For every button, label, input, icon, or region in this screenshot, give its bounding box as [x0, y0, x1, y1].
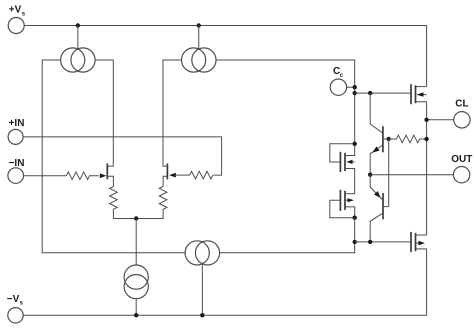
wire R2 to J2 gate [176, 174, 190, 176]
node CL [424, 118, 428, 122]
MOSFET M4 [330, 190, 355, 218]
svg-text:−V: −V [7, 294, 20, 305]
JFET J1 [106, 163, 108, 179]
current source I1 [61, 48, 96, 72]
JFET J2 [166, 163, 168, 179]
node top rail / I1 [76, 23, 80, 27]
wire -IN to R1 [24, 175, 67, 177]
node OUT [368, 173, 372, 177]
wire top rail [24, 26, 426, 87]
wire OUT [370, 174, 453, 176]
wire M2 gate [355, 241, 411, 243]
svg-text:OUT: OUT [451, 154, 472, 165]
current source I2 [182, 48, 216, 72]
terminal -IN [8, 168, 24, 184]
resistor R5 [389, 135, 426, 143]
MOSFET M3 [330, 144, 355, 194]
wire I4 right output [220, 242, 355, 253]
wire Cc to chain [347, 86, 355, 88]
current source I3 [124, 265, 148, 299]
transistor Q2 [370, 175, 389, 242]
J2 source lead [163, 176, 167, 186]
node M2 gate left [353, 240, 357, 244]
svg-text:+V: +V [9, 5, 22, 16]
terminal Cc [330, 79, 346, 95]
wire bottom rail [23, 249, 426, 315]
node Q1 collector branch [368, 91, 372, 95]
svg-text:+IN: +IN [9, 118, 25, 129]
node Q1 base [387, 137, 391, 141]
resistor R4 [136, 187, 167, 219]
resistor R3 [110, 187, 137, 219]
wire M4 to gate node [354, 218, 356, 242]
current source I4 [185, 241, 220, 265]
node M3 drain [353, 142, 357, 146]
wire I2 right output to bias chain [216, 60, 355, 144]
wire tail to I3 [135, 219, 137, 266]
MOSFET M2 [411, 232, 427, 252]
node top rail / I2 [197, 23, 201, 27]
node R5 right [424, 137, 428, 141]
J1 gate arrow [100, 173, 107, 178]
transistor Q1 [370, 93, 389, 175]
node tail [134, 216, 138, 220]
node M1 gate [353, 91, 357, 95]
wire I1 left output [42, 60, 185, 253]
MOSFET M1 [411, 84, 427, 235]
wire CL [427, 119, 454, 121]
wire I1 top feed [77, 26, 79, 51]
wire M1 gate [355, 92, 411, 94]
wire I4 to rail [201, 263, 203, 316]
terminal CL [454, 112, 470, 128]
node Cc [353, 85, 357, 89]
node Q2 collector / M2 gate [368, 240, 372, 244]
wire I2 top feed [198, 26, 200, 51]
node M4 source [353, 216, 357, 220]
J1 source lead [107, 176, 113, 186]
terminal -Vs [8, 308, 23, 323]
J2 gate arrow [169, 173, 176, 178]
wire Q1 Q2 bases [388, 139, 390, 207]
node rail / I4 [200, 313, 204, 317]
resistor R2 [190, 171, 213, 179]
resistor R1 [66, 172, 99, 180]
wire +IN to J2 gate loop [23, 137, 222, 175]
terminal +IN [8, 129, 23, 144]
terminal OUT [453, 167, 469, 183]
wire I1 right output to J1 drain [95, 60, 113, 166]
node rail / I3 [134, 313, 138, 317]
terminal +Vs [8, 18, 24, 34]
wire I3 to rail [135, 299, 137, 316]
wire I2 left output to J2 drain [163, 60, 182, 166]
svg-text:CL: CL [455, 99, 468, 110]
